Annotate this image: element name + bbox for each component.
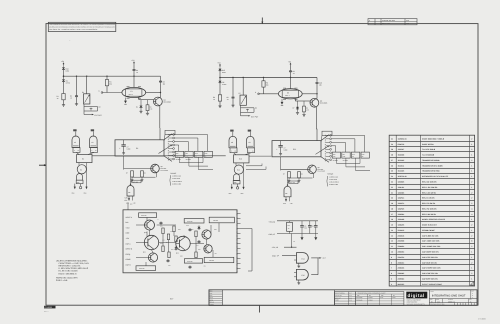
pot wiper bracket: [83, 104, 85, 115]
wire zener to resistor: [63, 82, 65, 93]
module transistor Q12: [176, 236, 190, 250]
svg-text:E15: E15: [302, 274, 305, 277]
svg-text:3 10US-100US: 3 10US-100US: [329, 182, 339, 184]
+5V supply cell2 left: [219, 65, 221, 67]
svg-text:2: 2: [471, 137, 472, 140]
svg-text:1: 1: [471, 164, 472, 167]
svg-text:+15V,AC: +15V,AC: [269, 220, 276, 223]
svg-text:INTEGRATING ONE SHOT: INTEGRATING ONE SHOT: [432, 294, 466, 297]
svg-text:1 100NS-1US: 1 100NS-1US: [329, 176, 338, 178]
capacitor C4 on +5V: [133, 65, 135, 69]
module transistor Q14: [202, 230, 211, 239]
svg-text:2100105: 2100105: [398, 229, 405, 232]
E14 output wire with arrow: [311, 257, 320, 259]
svg-text:C21: C21: [312, 226, 315, 228]
emitter load resistors block1: [156, 173, 158, 178]
svg-text:24: 24: [391, 175, 393, 178]
svg-text:EIA: EIA: [393, 295, 395, 297]
svg-text:9007653: 9007653: [398, 283, 405, 286]
svg-text:R33: R33: [160, 243, 163, 245]
wire diode to bus junction: [63, 71, 65, 79]
svg-text:CHK R.HILL: CHK R.HILL: [335, 295, 342, 297]
svg-text:R11: R11: [186, 153, 189, 155]
zener diode D5: [219, 80, 221, 81]
wires pedestals to buffer cluster2: [234, 153, 237, 155]
capacitor C10 right: [316, 78, 318, 82]
svg-text:C14: C14: [196, 245, 199, 247]
one-shot IC box E11 block2: [272, 141, 321, 157]
ground under E15: [298, 280, 300, 282]
svg-text:2: 2: [471, 272, 472, 275]
svg-text:750: 750: [176, 155, 178, 157]
title block outline: [209, 290, 477, 306]
svg-text:R38: R38: [180, 256, 183, 258]
svg-text:DIODE IN 914 CKT: DIODE IN 914 CKT: [422, 224, 438, 227]
staircase wires to range resistors block2: [332, 134, 365, 136]
svg-text:R13: R13: [205, 153, 208, 155]
one-shot IC box E4 block1: [115, 140, 164, 156]
svg-text:10-6: 10-6: [349, 297, 352, 299]
E15 output wire: [311, 274, 318, 276]
gate top stubs cluster2: [232, 132, 234, 137]
wires buffer to inverter cluster2: [235, 163, 237, 165]
svg-text:CAPACITORS = .01UF; 20%; 100V: CAPACITORS = .01UF; 20%; 100V: [59, 262, 90, 265]
bottom fold tick: [259, 305, 261, 312]
svg-text:Q10: Q10: [144, 232, 147, 234]
svg-text:1.5K: 1.5K: [343, 156, 346, 158]
filter capacitor C22: [315, 221, 317, 226]
one-shot oval E5: [278, 89, 302, 99]
module extra capacitors: [160, 222, 162, 223]
svg-text:1: 1: [471, 170, 472, 173]
module resistor R25: [204, 257, 234, 262]
svg-text:1.5K: 1.5K: [290, 203, 293, 205]
wire R8 to timer input pin: [263, 87, 265, 94]
svg-text:2: 2: [471, 234, 472, 237]
svg-text:CAP. 6.8MF 35V 10%: CAP. 6.8MF 35V 10%: [422, 234, 439, 237]
svg-text:GND: GND: [234, 182, 237, 184]
svg-text:1500048: 1500048: [398, 154, 405, 157]
svg-text:D9: D9: [183, 235, 185, 237]
svg-text:1105554-00: 1105554-00: [398, 137, 407, 140]
svg-text:21: 21: [391, 191, 393, 194]
diode D14: [63, 66, 65, 67]
svg-text:2: 2: [471, 202, 472, 205]
dashed select line block2: [324, 135, 326, 162]
svg-text:OUT B: OUT B: [126, 264, 132, 267]
svg-text:C9 39MF: C9 39MF: [186, 159, 192, 161]
gate E8 pins block1: [128, 196, 130, 201]
svg-text:1: 1: [471, 218, 472, 221]
svg-text:EMITTER: EMITTER: [161, 168, 167, 170]
svg-text:C20: C20: [304, 226, 307, 228]
output flag label block1: [132, 180, 141, 183]
svg-text:2: 2: [471, 148, 472, 151]
svg-text:RES. 5.6K 2W 5%: RES. 5.6K 2W 5%: [422, 213, 436, 216]
filter resistor R40: [289, 221, 291, 223]
svg-text:NICKEL RESISTOR 47X10-25: NICKEL RESISTOR 47X10-25: [422, 218, 445, 221]
svg-text:8: 8: [391, 261, 392, 264]
wire diode to bus junction: [219, 72, 221, 80]
gnd box cluster1: [76, 180, 83, 183]
resistor R6: [218, 95, 221, 101]
svg-text:6.8MF: 6.8MF: [127, 149, 131, 151]
module resistor R21: [184, 219, 204, 223]
svg-text:CAP. .01MF 100V 20%: CAP. .01MF 100V 20%: [422, 240, 440, 243]
dist column: [470, 290, 472, 299]
svg-text:C8 39MF: C8 39MF: [176, 159, 182, 161]
svg-text:2: 2: [471, 191, 472, 194]
capacitor C7 block1: [123, 140, 125, 145]
svg-text:R36: R36: [198, 249, 201, 251]
fan trapezoid block2: [321, 135, 329, 141]
svg-text:2 1US-10US: 2 1US-10US: [329, 179, 337, 181]
svg-text:R10: R10: [333, 154, 336, 156]
svg-text:19: 19: [391, 202, 393, 205]
fan pin circles block2: [326, 134, 330, 136]
svg-text:GND: GND: [241, 193, 244, 195]
wire emitter of Q2 down: [315, 107, 317, 129]
svg-text:CORPORATION: CORPORATION: [407, 302, 418, 304]
svg-text:1513005: 1513005: [398, 170, 405, 173]
svg-text:1300448: 1300448: [398, 218, 405, 221]
output NOR gate E14: [297, 253, 309, 264]
svg-text:4 100US-1MS: 4 100US-1MS: [172, 183, 181, 185]
copyright notice box: [48, 22, 116, 31]
ground under R6: [219, 101, 221, 106]
range resistor row block1: [175, 151, 183, 157]
wire oval to C5 node: [146, 92, 161, 94]
top fold tick: [261, 18, 263, 24]
gate top stubs cluster1: [75, 132, 77, 137]
selector wiper block1: [159, 145, 172, 153]
gate E2a pedestal: [73, 148, 80, 153]
svg-text:2N3639: 2N3639: [368, 300, 372, 302]
gate input labels cluster2: [230, 130, 233, 132]
wire oval to transistor base: [294, 99, 296, 101]
terminal pins cluster2: [231, 184, 233, 189]
svg-text:R13: R13: [362, 154, 365, 156]
output NOR gate E15: [297, 269, 309, 280]
svg-text:INPUT A: INPUT A: [126, 216, 133, 219]
svg-text:3 10US-100US: 3 10US-100US: [172, 181, 182, 183]
svg-text:3.3K 1W: 3.3K 1W: [187, 221, 193, 223]
svg-text:BAL: BAL: [126, 221, 129, 224]
timing cell 1: [56, 59, 170, 128]
potentiometer R7: [242, 78, 244, 96]
transistor Q1: [154, 97, 163, 106]
svg-text:31: 31: [391, 137, 393, 140]
svg-text:INPUT B: INPUT B: [126, 248, 134, 251]
svg-text:R39: R39: [214, 229, 217, 231]
svg-text:1305564: 1305564: [398, 213, 405, 216]
svg-text:DEC-1: DEC-1: [129, 94, 133, 96]
svg-text:CAP. 2700PF 500V 10%: CAP. 2700PF 500V 10%: [422, 267, 441, 270]
svg-text:1.5K: 1.5K: [150, 108, 153, 110]
svg-text:TRANSISTOR SE7056: TRANSISTOR SE7056: [422, 170, 439, 173]
wire R3 to timer input pin: [106, 86, 108, 93]
svg-text:R12: R12: [195, 153, 198, 155]
svg-text:2: 2: [471, 180, 472, 183]
inter-stage wire cluster2: [249, 155, 271, 157]
ground under E14: [298, 263, 300, 265]
svg-text:1: 1: [471, 277, 472, 280]
capacitor C5 right: [160, 76, 162, 80]
capacitor C1: [76, 76, 77, 77]
svg-text:E11: E11: [293, 148, 296, 151]
svg-text:4 100US-1MS: 4 100US-1MS: [329, 184, 338, 186]
filter dropper wire: [291, 234, 293, 248]
svg-text:RES. 270 5W 5%: RES. 270 5W 5%: [422, 202, 436, 205]
svg-text:20: 20: [391, 197, 393, 200]
wire from timing cell into IC block2: [316, 129, 318, 141]
svg-text:DEC3009B: DEC3009B: [164, 101, 171, 103]
svg-text:DIGITAL EQUIPMENT: DIGITAL EQUIPMENT: [407, 300, 421, 302]
svg-text:DRN F.PURCELL: DRN F.PURCELL: [335, 293, 345, 295]
svg-text:TP2: TP2: [214, 253, 217, 255]
svg-text:6: 6: [391, 272, 392, 275]
svg-text:3K: 3K: [352, 156, 354, 158]
svg-text:C: C: [472, 297, 473, 299]
svg-text:270 5W: 270 5W: [213, 220, 218, 222]
gate E9b pedestal: [248, 148, 255, 153]
output flag label block2: [289, 181, 298, 184]
svg-text:1: 1: [471, 175, 472, 178]
svg-text:1: 1: [471, 256, 472, 259]
svg-text:17: 17: [391, 213, 393, 216]
svg-text:270 5W: 270 5W: [209, 260, 214, 262]
buffer box E3: [77, 155, 92, 163]
svg-text:RES. 1.5K 1/4W 5%: RES. 1.5K 1/4W 5%: [422, 186, 438, 189]
diode D15: [219, 68, 221, 69]
svg-text:2: 2: [471, 197, 472, 200]
svg-text:1.5K: 1.5K: [133, 202, 136, 204]
svg-text:4: 4: [391, 283, 392, 286]
module transistor Q11: [144, 235, 158, 249]
size code number row: [429, 298, 477, 300]
svg-text:1302525: 1302525: [398, 207, 405, 210]
svg-text:C9 39MF: C9 39MF: [343, 160, 349, 162]
svg-text:DLY OUT: DLY OUT: [133, 181, 139, 183]
svg-text:CAP. 47PF 500V 5%: CAP. 47PF 500V 5%: [422, 256, 438, 259]
svg-text:1.5K: 1.5K: [306, 110, 309, 112]
module extra wires: [136, 224, 145, 226]
svg-text:SHEET: SHEET: [210, 304, 214, 306]
logic cluster 2: [229, 130, 272, 195]
svg-text:R10: R10: [176, 153, 179, 155]
NAND gate E9a: [229, 136, 237, 148]
inverter transistor E12: [234, 165, 243, 174]
svg-text:1303347: 1303347: [398, 148, 405, 151]
main bus wire cell1: [64, 75, 161, 77]
module transistor Q13: [148, 253, 157, 262]
svg-text:30: 30: [391, 143, 393, 146]
emitter follower transistor block1: [123, 156, 125, 170]
svg-text:26: 26: [391, 164, 393, 167]
gate E9a pedestal: [230, 148, 237, 153]
resistor R9: [303, 101, 305, 106]
svg-text:DATE: DATE: [210, 299, 213, 301]
svg-text:GND,AF: GND,AF: [269, 233, 275, 236]
zener diode D1: [63, 78, 65, 79]
svg-text:2 1US-10US: 2 1US-10US: [172, 178, 180, 180]
svg-text:UNLESS OTHERWISE INDICATED:: UNLESS OTHERWISE INDICATED:: [56, 259, 88, 262]
wire from timing cell into IC block1: [159, 128, 161, 140]
svg-text:D. RE-CAPACITORS, MFD-25-UF: D. RE-CAPACITORS, MFD-25-UF: [59, 267, 89, 270]
svg-text:-15V, AD: -15V, AD: [272, 246, 279, 249]
terminal pins cluster1: [74, 184, 76, 189]
svg-text:TRANSISTOR & DIODE CONVERSION: TRANSISTOR & DIODE CONVERSION CHART: [358, 293, 386, 295]
gnd box cluster2: [233, 181, 240, 184]
NAND gate E2b: [90, 136, 98, 147]
svg-text:DRN: DRN: [210, 291, 213, 293]
svg-text:PART# DEC 4606-0 ETS: PART# DEC 4606-0 ETS: [56, 276, 78, 279]
svg-text:4: 4: [471, 207, 472, 210]
svg-text:EXT POT: EXT POT: [251, 116, 258, 119]
inter-stage wire cluster1: [92, 155, 226, 157]
sheet border frame: [46, 24, 478, 306]
ground under C6: [232, 99, 234, 105]
svg-text:CAP. 39UF 6V 10%: CAP. 39UF 6V 10%: [422, 261, 437, 264]
svg-text:12: 12: [391, 240, 393, 243]
gate E8 pins block2: [285, 197, 287, 202]
svg-text:TRANSISTOR DEC 3639B: TRANSISTOR DEC 3639B: [422, 164, 443, 167]
svg-text:digital: digital: [408, 293, 425, 298]
ground under oval E5: [281, 99, 283, 102]
svg-text:DIST: DIST: [471, 291, 474, 293]
svg-text:DEC3009B: DEC3009B: [320, 103, 327, 105]
svg-text:10-4: 10-4: [349, 293, 352, 295]
svg-text:2300126: 2300126: [398, 234, 405, 237]
svg-text:GND: GND: [72, 193, 75, 195]
svg-text:1 100NS-1US: 1 100NS-1US: [172, 176, 181, 178]
svg-text:11: 11: [391, 245, 393, 248]
ground under C1: [76, 98, 78, 104]
gate input labels cluster1: [73, 129, 76, 131]
module output wire loop: [241, 228, 253, 230]
svg-text:COMP: COMP: [126, 258, 132, 261]
svg-text:TITLE: TITLE: [430, 291, 433, 293]
svg-text:T.O. DEC 3009-B: T.O. DEC 3009-B: [422, 148, 436, 151]
+5V supply cell2 top: [290, 64, 292, 66]
svg-text:GND: GND: [283, 203, 286, 205]
svg-text:E1, E8 = DEC74123N: E1, E8 = DEC74123N: [59, 270, 79, 273]
dashed select line block1: [167, 134, 169, 161]
resistor R8: [263, 78, 265, 81]
lower staircase wires block1: [179, 162, 203, 164]
svg-text:D8: D8: [148, 235, 150, 237]
IC top tap box block2: [322, 131, 332, 135]
staircase wires to range resistors block1: [175, 134, 208, 136]
parts list table: [389, 135, 474, 286]
svg-text:E14: E14: [302, 257, 305, 260]
svg-text:1510005: 1510005: [398, 159, 405, 162]
svg-text:E4: E4: [136, 147, 138, 150]
svg-text:22: 22: [391, 186, 393, 189]
svg-text:1: 1: [471, 251, 472, 254]
range resistor row block2: [332, 152, 340, 158]
svg-text:FOR D = A/B: FOR D = A/B: [56, 279, 68, 282]
wire zener to resistor: [219, 84, 221, 95]
output gate E7: [77, 174, 83, 181]
svg-text:R40: R40: [287, 225, 290, 227]
emitter follower transistor block2: [280, 157, 282, 171]
svg-text:1303805: 1303805: [398, 180, 405, 183]
feed wire to block2 lower: [246, 168, 266, 170]
drawing number bottom-left: [44, 306, 56, 309]
module resistor R23: [136, 266, 156, 271]
+5V supply cell1 left: [63, 64, 65, 66]
svg-text:1300365: 1300365: [398, 191, 405, 194]
svg-text:PROJ: PROJ: [210, 297, 214, 299]
filter top rail: [277, 220, 318, 222]
svg-text:GND, TP: GND, TP: [272, 254, 280, 257]
svg-text:2390053: 2390053: [398, 251, 405, 254]
svg-text:750: 750: [333, 156, 335, 158]
svg-text:1: 1: [471, 186, 472, 189]
svg-text:EXT POT: EXT POT: [95, 114, 102, 117]
module resistor R24: [184, 259, 202, 263]
capacitor C9 on +5V: [290, 66, 292, 70]
svg-text:1: 1: [471, 154, 472, 157]
one-shot block 1: [115, 128, 213, 204]
wires buffer to inverter cluster1: [78, 163, 80, 165]
fan trapezoid block1: [164, 134, 172, 140]
svg-text:DEC: DEC: [381, 295, 384, 297]
wire oval to C10 node: [302, 93, 317, 95]
svg-text:CAP. .001MF 100V 20%: CAP. .001MF 100V 20%: [422, 245, 441, 248]
svg-text:4: 4: [471, 213, 472, 216]
svg-text:5.6K 2W: 5.6K 2W: [141, 215, 147, 217]
svg-text:1K: 1K: [166, 242, 168, 244]
timing cell 2: [213, 60, 327, 129]
digital logo: [406, 292, 427, 299]
inverter transistor E6: [77, 165, 86, 174]
svg-text:2306014: 2306014: [398, 261, 405, 264]
wires pedestals to buffer cluster1: [77, 152, 80, 154]
svg-text:29: 29: [391, 148, 393, 151]
svg-text:1300274: 1300274: [398, 202, 405, 205]
svg-text:9: 9: [391, 256, 392, 259]
svg-text:5: 5: [391, 277, 392, 280]
diode D3: [140, 100, 142, 105]
parts table last-row flag: [470, 282, 474, 286]
ground under R1: [63, 100, 65, 105]
svg-text:RES. 750 1/2W 5%: RES. 750 1/2W 5%: [422, 207, 437, 210]
transistor-diode conversion chart: [356, 292, 404, 306]
svg-text:DEC3009B: DEC3009B: [356, 297, 362, 299]
svg-text:FOLLOWER: FOLLOWER: [161, 170, 168, 172]
svg-text:25: 25: [391, 170, 393, 173]
one-shot oval E1: [122, 87, 146, 97]
svg-text:R35: R35: [191, 229, 194, 231]
wire oval to transistor base: [138, 97, 140, 99]
svg-text:R31: R31: [160, 226, 163, 228]
svg-text:R8: R8: [301, 173, 303, 175]
main bus wire cell2: [220, 77, 317, 79]
svg-text:3.3K 1W: 3.3K 1W: [187, 261, 193, 263]
svg-text:D662: D662: [380, 297, 383, 299]
svg-text:2304558: 2304558: [398, 240, 405, 243]
svg-text:.001: .001: [162, 240, 165, 242]
svg-text:R8: R8: [144, 173, 146, 175]
module transistor Q15: [204, 245, 212, 253]
svg-text:SCALE: SCALE: [210, 302, 214, 304]
gate E8 body block1: [127, 186, 134, 196]
svg-text:FREQ: FREQ: [126, 253, 131, 256]
svg-text:R4: R4: [150, 106, 152, 108]
svg-text:E3,E4 = DEC8881-N: E3,E4 = DEC8881-N: [59, 272, 78, 275]
